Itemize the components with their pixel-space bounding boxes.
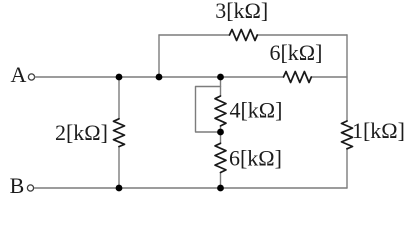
wire: 6k resistor to right vertical bbox=[312, 76, 348, 78]
wire: middle branch upper bbox=[220, 77, 222, 96]
junction: A rail and 2k branch bbox=[116, 74, 123, 81]
wire: top branch left of 3k bbox=[159, 34, 230, 36]
resistor 6[kOhm] middle zigzag bbox=[215, 143, 226, 172]
svg-text:A: A bbox=[11, 62, 27, 87]
resistor 4[kOhm] zigzag bbox=[215, 96, 226, 126]
wire: shorting bracket around 4k bbox=[196, 87, 221, 133]
wire: right vertical upper bbox=[346, 35, 348, 121]
svg-text:6[kΩ]: 6[kΩ] bbox=[229, 146, 282, 171]
wire: top branch right of 3k bbox=[257, 34, 347, 36]
svg-text:B: B bbox=[10, 173, 25, 198]
wire: bottom B rail bbox=[35, 187, 348, 189]
svg-text:3[kΩ]: 3[kΩ] bbox=[215, 0, 268, 23]
junction: A rail and middle branch bbox=[217, 74, 224, 81]
resistor 1[kOhm] zigzag bbox=[342, 121, 353, 149]
wire: 2k branch upper bbox=[118, 77, 120, 119]
terminal B bbox=[27, 185, 33, 191]
terminal A bbox=[28, 74, 34, 80]
wire: A terminal to 6k resistor bbox=[35, 76, 284, 78]
junction: B rail and 2k branch bbox=[116, 185, 123, 192]
resistor 2[kOhm] zigzag bbox=[114, 119, 125, 147]
svg-text:2[kΩ]: 2[kΩ] bbox=[55, 120, 108, 145]
resistor 3[kOhm] zigzag bbox=[230, 30, 258, 41]
wire: 2k branch lower bbox=[118, 147, 120, 189]
svg-text:4[kΩ]: 4[kΩ] bbox=[229, 98, 282, 123]
junction: A rail and top branch riser bbox=[156, 74, 163, 81]
wire: top branch riser bbox=[158, 35, 160, 77]
wire: middle branch between 4k and 6k bbox=[220, 126, 222, 143]
svg-text:6[kΩ]: 6[kΩ] bbox=[269, 40, 322, 65]
junction: B rail and middle branch bbox=[217, 185, 224, 192]
wire: middle branch lower bbox=[220, 172, 222, 188]
wire: right vertical lower bbox=[346, 149, 348, 189]
junction: between 4k and 6k bbox=[217, 129, 224, 136]
svg-text:1[kΩ]: 1[kΩ] bbox=[352, 118, 405, 143]
resistor 6[kOhm] top zigzag bbox=[284, 72, 312, 83]
